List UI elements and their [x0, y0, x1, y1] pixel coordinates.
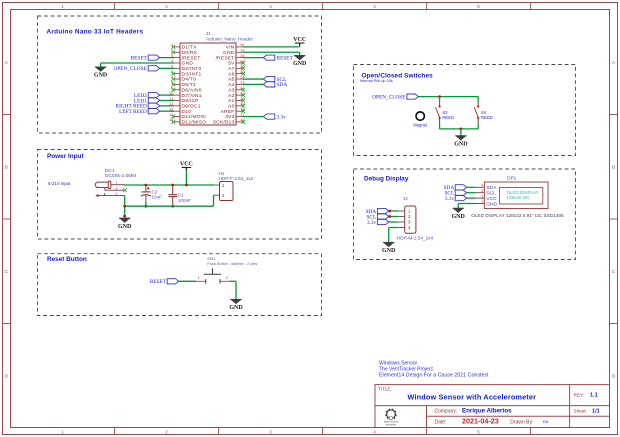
svg-text:SDA: SDA [277, 82, 288, 88]
svg-text:hardware: hardware [386, 422, 397, 426]
svg-text:SW1: SW1 [207, 257, 215, 261]
svg-text:3.3v: 3.3v [445, 196, 455, 202]
svg-text:Sheet:: Sheet: [574, 408, 587, 413]
svg-text:1: 1 [116, 181, 118, 185]
svg-text:B: B [5, 164, 8, 169]
svg-text:REED: REED [481, 115, 493, 120]
svg-text:RESET: RESET [277, 55, 294, 61]
svg-text:GND: GND [229, 305, 243, 311]
svg-text:A6: A6 [228, 71, 234, 77]
svg-text:SCK/D13: SCK/D13 [213, 120, 235, 126]
svg-text:GND: GND [223, 50, 235, 56]
svg-text:DC005-2.0MM: DC005-2.0MM [105, 173, 136, 179]
svg-text:D12/MISO: D12/MISO [182, 120, 207, 126]
svg-text:5: 5 [477, 429, 480, 434]
svg-text:A2: A2 [228, 93, 234, 99]
svg-text:100nF: 100nF [178, 198, 191, 203]
svg-text:RESET: RESET [150, 279, 167, 285]
svg-text:GND: GND [293, 61, 307, 67]
svg-text:D4/T0: D4/T0 [182, 77, 197, 83]
svg-text:Drawn By:: Drawn By: [510, 419, 533, 425]
svg-text:HDR-F-2.54_1x2: HDR-F-2.54_1x2 [219, 176, 254, 181]
svg-text:A4: A4 [228, 82, 234, 88]
svg-text:1.1: 1.1 [590, 393, 598, 399]
svg-text:D2/INT0: D2/INT0 [182, 66, 202, 72]
svg-text:A1: A1 [228, 98, 234, 104]
svg-text:RESET: RESET [131, 55, 148, 61]
svg-text:5V: 5V [228, 61, 235, 67]
svg-text:GND: GND [382, 248, 396, 254]
svg-text:D5/T1: D5/T1 [182, 82, 197, 88]
svg-text:4: 4 [373, 4, 376, 9]
svg-text:D6/AIN0: D6/AIN0 [182, 87, 202, 93]
svg-text:1: 1 [61, 429, 64, 434]
svg-text:5: 5 [477, 4, 480, 9]
svg-text:/RESET: /RESET [182, 55, 201, 61]
svg-text:1: 1 [61, 4, 64, 9]
svg-text:D0/RX: D0/RX [182, 50, 198, 56]
svg-text:Reset Button: Reset Button [47, 256, 87, 263]
svg-text:D1/TX: D1/TX [182, 45, 198, 51]
svg-text:A7: A7 [228, 66, 234, 72]
svg-text:EA: EA [543, 419, 549, 424]
svg-text:D3/INT1: D3/INT1 [182, 71, 202, 77]
svg-text:DP1: DP1 [507, 176, 516, 181]
svg-text:A3: A3 [228, 87, 234, 93]
svg-text:SDA: SDA [486, 185, 497, 191]
svg-text:VCC: VCC [293, 37, 306, 43]
svg-text:GND: GND [182, 61, 194, 67]
svg-text:OPEN_CLOSE: OPEN_CLOSE [372, 94, 405, 100]
svg-text:OPEN_CLOSE: OPEN_CLOSE [114, 66, 147, 72]
svg-text:4: 4 [373, 429, 376, 434]
svg-text:Magnet: Magnet [413, 123, 428, 128]
svg-text:A5: A5 [228, 77, 234, 83]
svg-text:Debug Display: Debug Display [364, 176, 409, 183]
svg-text:Push Button - 6x6mm - 2 pins: Push Button - 6x6mm - 2 pins [207, 262, 257, 266]
svg-text:TITLE:: TITLE: [378, 386, 392, 391]
svg-text:A0: A0 [228, 104, 234, 110]
svg-text:GND: GND [454, 141, 468, 147]
svg-text:GND: GND [486, 201, 497, 207]
svg-text:AREF: AREF [221, 109, 235, 115]
svg-text:Arduino_Nano_Header: Arduino_Nano_Header [206, 36, 253, 41]
svg-text:2: 2 [165, 429, 168, 434]
svg-text:/RESET: /RESET [216, 55, 235, 61]
svg-text:B: B [612, 164, 615, 169]
svg-text:Element14 Design For a Cause 2: Element14 Design For a Cause 2021 Conste… [379, 373, 489, 379]
svg-text:D11/MOSI: D11/MOSI [182, 114, 206, 120]
svg-text:LEFT REED: LEFT REED [119, 109, 147, 115]
svg-text:Date:: Date: [435, 419, 447, 425]
svg-text:J2: J2 [403, 196, 408, 201]
svg-text:128x32 I2C: 128x32 I2C [507, 195, 531, 200]
svg-text:5-21V input: 5-21V input [48, 181, 71, 186]
svg-text:2: 2 [165, 4, 168, 9]
svg-text:GND: GND [452, 214, 466, 220]
svg-text:GND: GND [118, 224, 132, 230]
svg-text:VCC: VCC [486, 196, 497, 202]
svg-text:VCC: VCC [180, 161, 193, 167]
svg-text:Enrique Albertos: Enrique Albertos [462, 407, 512, 414]
svg-text:D10: D10 [182, 109, 192, 115]
svg-text:REED: REED [442, 115, 454, 120]
svg-text:3: 3 [269, 4, 272, 9]
svg-text:1/1: 1/1 [592, 408, 600, 414]
svg-text:Company:: Company: [435, 408, 458, 414]
svg-text:D8/ICP: D8/ICP [182, 98, 199, 104]
svg-text:HDR-M-2.54_1x4: HDR-M-2.54_1x4 [397, 236, 434, 241]
svg-text:3: 3 [269, 429, 272, 434]
svg-text:3V3: 3V3 [225, 114, 234, 120]
svg-text:3: 3 [116, 187, 118, 191]
svg-text:Power Input: Power Input [47, 153, 84, 160]
svg-text:GND: GND [94, 73, 108, 79]
svg-text:3.3v: 3.3v [367, 220, 377, 226]
svg-text:REV:: REV: [574, 393, 585, 398]
svg-text:2021-04-23: 2021-04-23 [462, 417, 499, 426]
svg-text:3.3v: 3.3v [277, 114, 287, 120]
svg-text:2: 2 [116, 192, 118, 196]
svg-text:10uF: 10uF [152, 194, 163, 199]
svg-text:D9/OC1: D9/OC1 [182, 104, 201, 110]
svg-text:Internal Pull-up 20k: Internal Pull-up 20k [360, 79, 393, 83]
svg-text:Window Sensor with Acceleromet: Window Sensor with Accelerometer [408, 392, 537, 401]
svg-text:VIN: VIN [226, 45, 235, 51]
svg-text:SCL: SCL [486, 191, 496, 197]
svg-text:OLED DISPLAY 128x32 0.91" I2C: OLED DISPLAY 128x32 0.91" I2C SSD1306 [471, 213, 564, 218]
svg-text:D7/AIN1: D7/AIN1 [182, 93, 202, 99]
svg-text:Arduino Nano 33 IoT Headers: Arduino Nano 33 IoT Headers [47, 29, 144, 36]
